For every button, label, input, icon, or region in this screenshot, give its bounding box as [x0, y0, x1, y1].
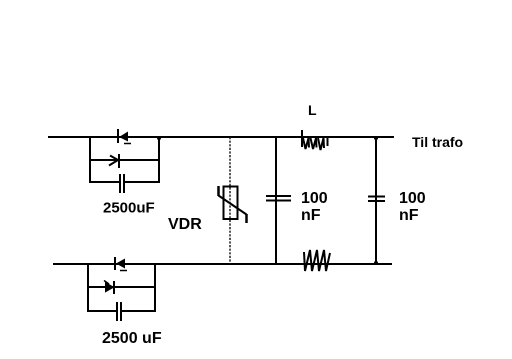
- diode D4 on bottom block middle branch: [104, 281, 114, 295]
- svg-text:nF: nF: [399, 207, 419, 224]
- wire bottom block right vertical: [154, 264, 156, 312]
- svg-text:2500uF: 2500uF: [103, 200, 155, 217]
- wire bottom block lower branch: [88, 310, 116, 312]
- wire bottom block middle branch: [88, 286, 155, 288]
- wire top block left vertical: [89, 137, 91, 183]
- capacitor C1 in top block lower branch: [120, 174, 124, 193]
- svg-text:100: 100: [301, 190, 328, 207]
- diode D1 on top rail: [118, 129, 131, 144]
- wire capacitor branch 2 vertical: [375, 137, 377, 264]
- diode D2 on top block middle branch: [109, 154, 119, 168]
- node junction cap2 bottom: [374, 261, 378, 265]
- svg-text:100: 100: [399, 190, 426, 207]
- capacitor C4 in bottom block lower branch: [117, 302, 121, 321]
- wire top block lower branch: [90, 181, 119, 183]
- inductor L2 on bottom rail: [304, 250, 330, 271]
- node top block right junction: [157, 136, 161, 140]
- svg-text:L: L: [308, 102, 317, 118]
- wire VDR branch vertical: [229, 137, 231, 264]
- capacitor C2 100nF: [266, 196, 291, 201]
- svg-text:nF: nF: [301, 207, 321, 224]
- svg-text:2500 uF: 2500 uF: [102, 330, 162, 347]
- wire top block right vertical: [158, 137, 160, 183]
- wire bottom block left vertical: [87, 264, 89, 312]
- wire bottom rail: [53, 263, 392, 265]
- node junction cap2 top: [374, 136, 378, 140]
- varistor VDR: [219, 186, 247, 223]
- wire top block middle branch: [90, 159, 159, 161]
- inductor L on top rail: [302, 130, 328, 150]
- svg-text:Til trafo: Til trafo: [412, 134, 463, 150]
- wire top rail: [48, 136, 394, 138]
- wire capacitor branch 1 vertical: [275, 137, 277, 264]
- diode D3 on bottom rail: [115, 257, 127, 271]
- capacitor C3 100nF: [368, 197, 385, 202]
- svg-text:VDR: VDR: [168, 216, 202, 233]
